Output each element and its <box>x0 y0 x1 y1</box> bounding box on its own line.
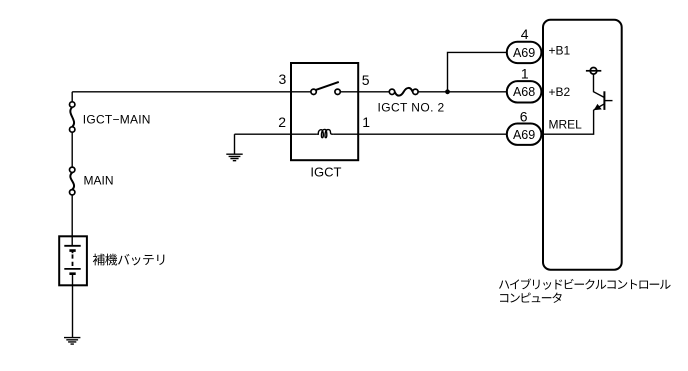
svg-text:MAIN: MAIN <box>84 173 114 187</box>
svg-text:3: 3 <box>279 71 287 87</box>
svg-text:+B2: +B2 <box>549 85 571 99</box>
svg-text:IGCT: IGCT <box>310 165 341 180</box>
svg-text:5: 5 <box>362 72 370 88</box>
svg-text:+B1: +B1 <box>549 44 571 58</box>
svg-text:1: 1 <box>521 66 529 82</box>
svg-text:A69: A69 <box>513 128 535 142</box>
svg-text:IGCT NO. 2: IGCT NO. 2 <box>378 101 445 115</box>
svg-text:IGCT−MAIN: IGCT−MAIN <box>83 112 151 126</box>
svg-text:2: 2 <box>278 114 286 130</box>
svg-text:1: 1 <box>362 114 370 130</box>
svg-text:A68: A68 <box>513 85 535 99</box>
svg-text:4: 4 <box>521 26 529 42</box>
svg-text:MREL: MREL <box>549 118 583 132</box>
svg-text:6: 6 <box>520 109 528 125</box>
svg-text:A69: A69 <box>513 46 535 60</box>
